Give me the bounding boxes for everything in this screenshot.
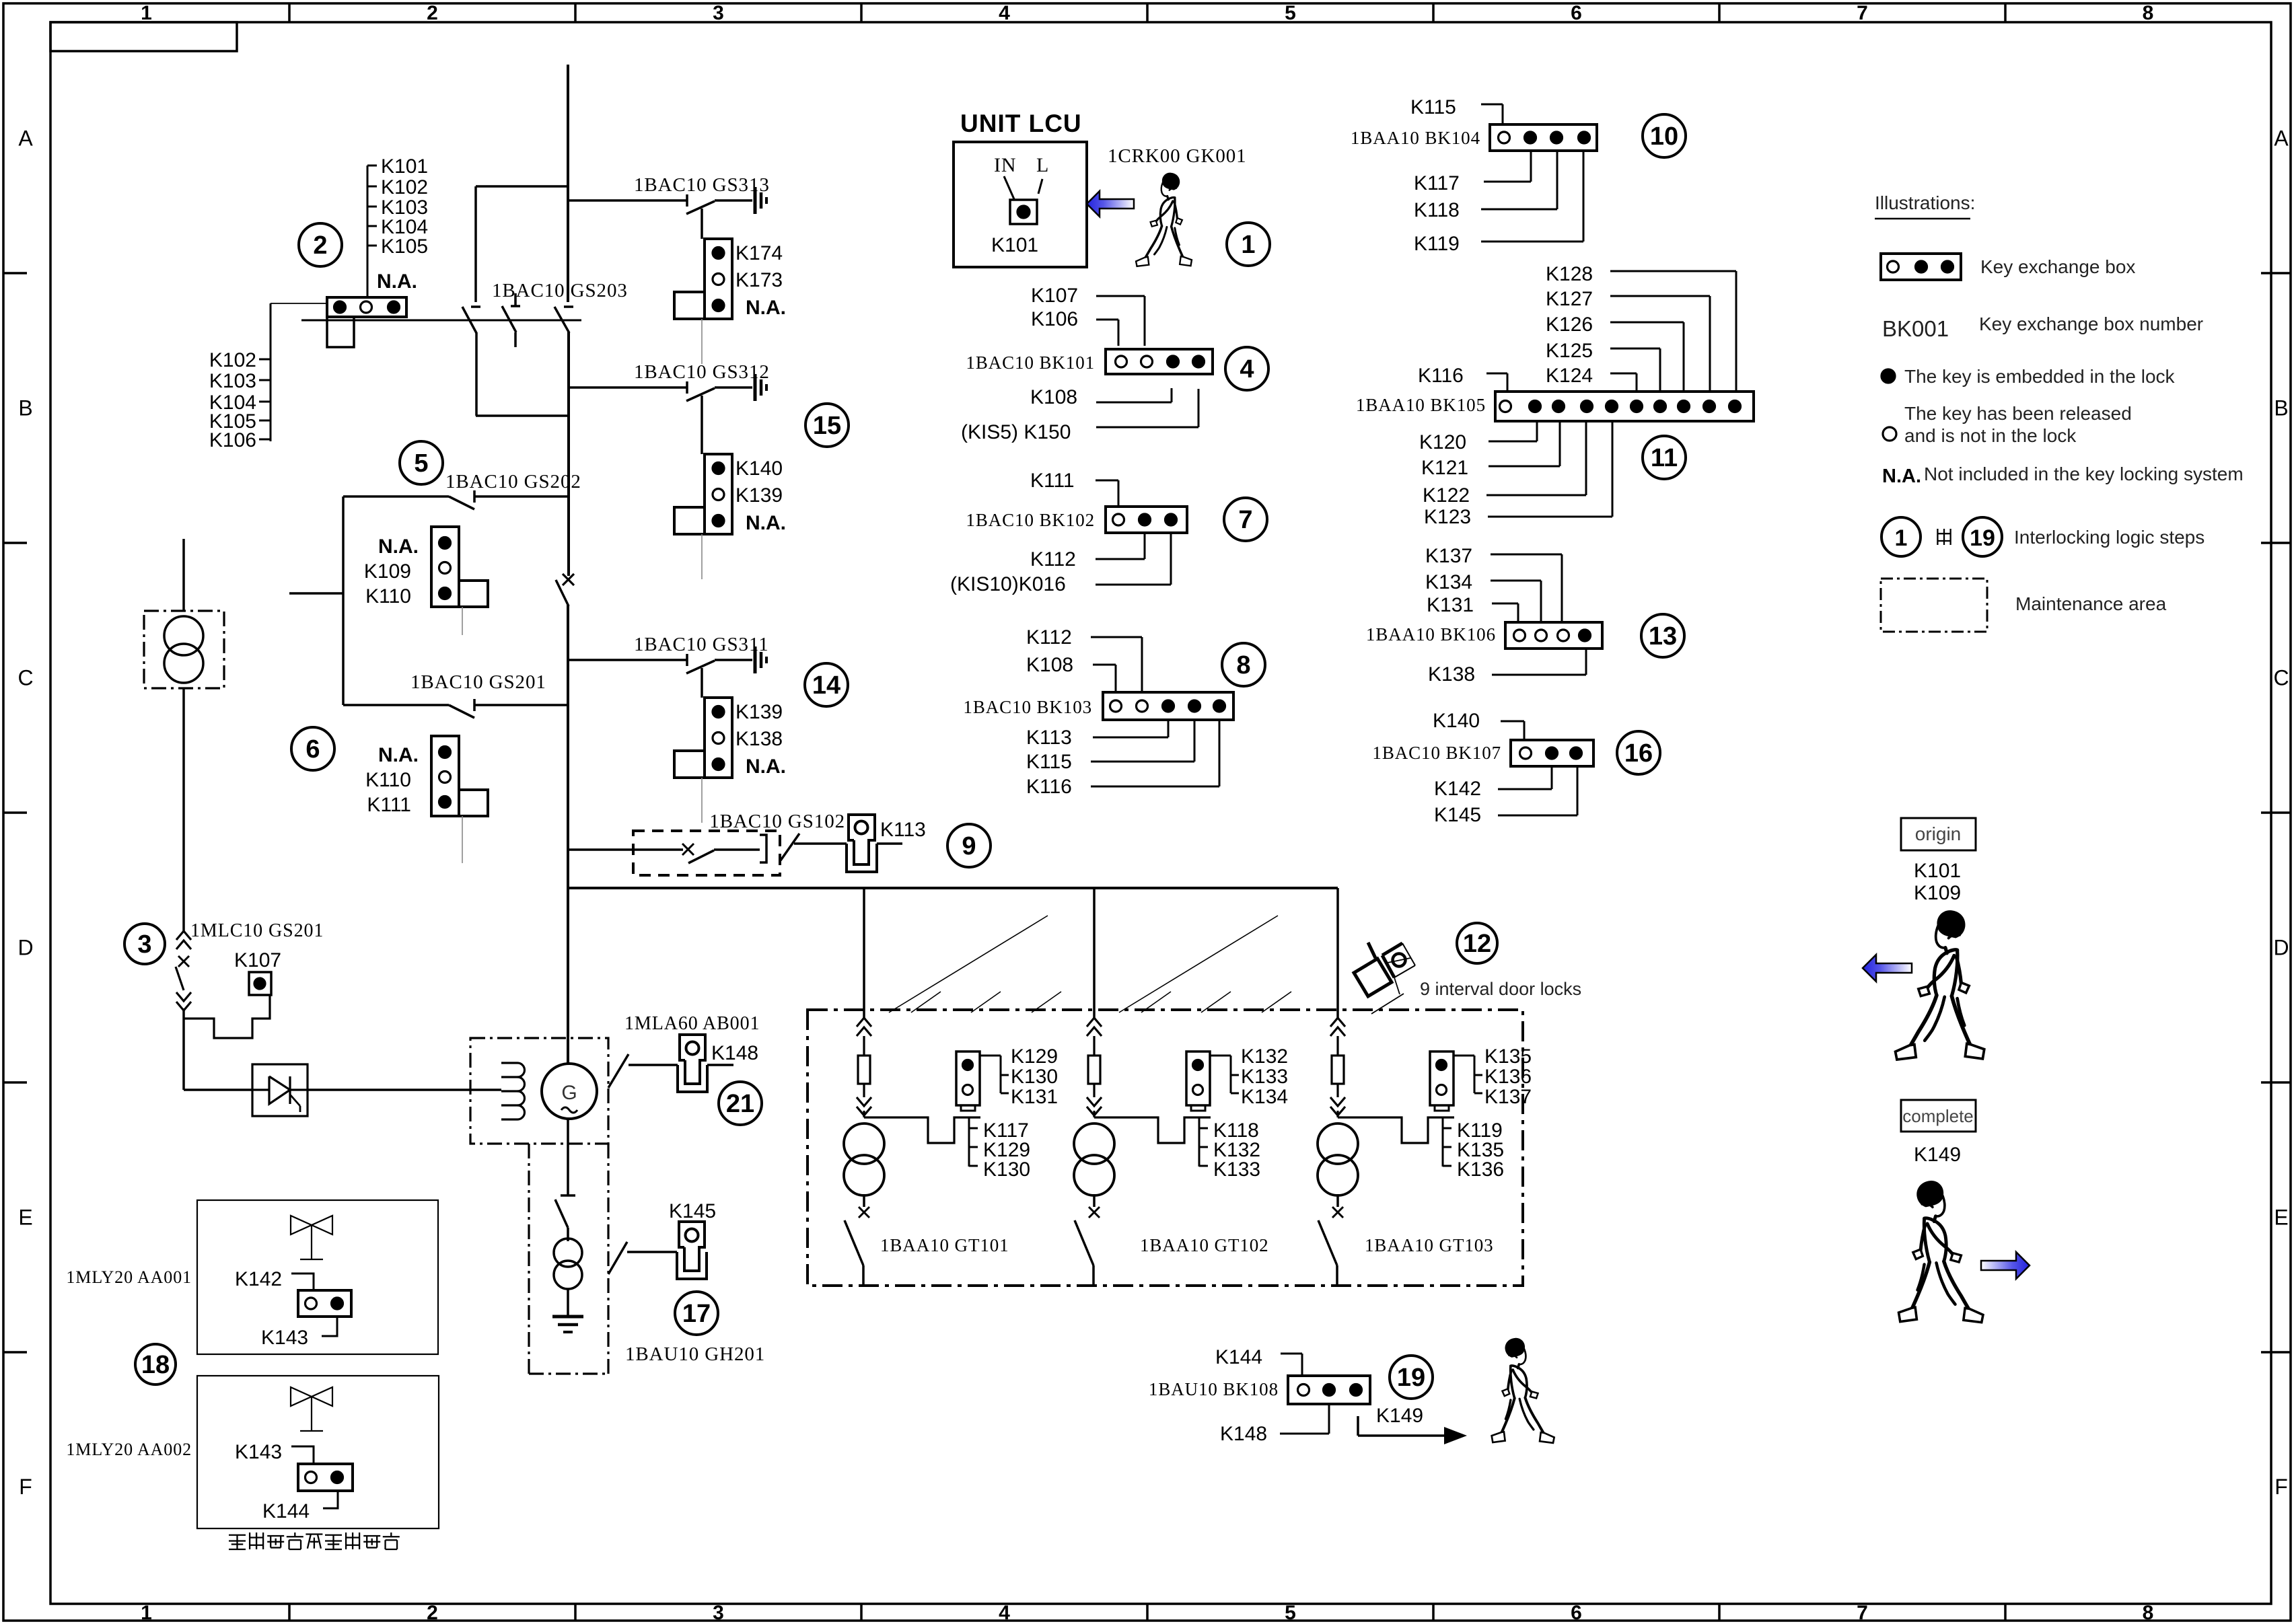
svg-text:K102: K102 xyxy=(209,349,256,371)
valve AA002 xyxy=(291,1387,332,1431)
svg-text:1BAC10 GS311: 1BAC10 GS311 xyxy=(634,634,769,655)
svg-text:K148: K148 xyxy=(1220,1423,1267,1445)
svg-text:2: 2 xyxy=(427,1602,438,1624)
caption CO2 fire isolation valves xyxy=(229,1533,400,1549)
svg-text:K120: K120 xyxy=(1419,431,1466,453)
key exchange box 1BAC10 BK102 xyxy=(1106,507,1187,533)
svg-text:IN: IN xyxy=(994,154,1016,176)
svg-text:13: 13 xyxy=(1649,622,1677,651)
svg-text:7: 7 xyxy=(1857,2,1868,24)
column ticks xyxy=(289,3,2005,1621)
svg-text:K130: K130 xyxy=(1011,1066,1058,1088)
wire branch 1BAC10 GS313 xyxy=(568,199,687,202)
cell left wire xyxy=(342,496,345,705)
svg-text:1BAC10 GS312: 1BAC10 GS312 xyxy=(634,361,770,383)
key label K115r fan xyxy=(1410,96,1503,124)
svg-text:1MLY20 AA002: 1MLY20 AA002 xyxy=(66,1440,192,1459)
legend open key text xyxy=(1904,403,2132,446)
disconnector 1BAC10 GS102 xyxy=(568,811,845,863)
svg-text:8: 8 xyxy=(2143,1602,2154,1624)
disconnector 1BAC10 GS311 xyxy=(634,634,769,673)
step 8 xyxy=(1222,643,1265,686)
key label K124 fan xyxy=(1546,365,1637,392)
bus wire upper xyxy=(567,65,569,302)
svg-text:B: B xyxy=(18,396,32,420)
tail wire 1BAC10 GS313 xyxy=(701,319,703,364)
field winding xyxy=(501,1063,525,1119)
pocket below box 2 xyxy=(327,317,354,347)
valve AA001 xyxy=(291,1216,332,1259)
interval door lock icon xyxy=(1354,943,1415,1014)
step 21 xyxy=(719,1082,762,1125)
svg-text:Key exchange box: Key exchange box xyxy=(1980,256,2135,277)
transformer 2-winding left xyxy=(164,616,203,683)
svg-text:N.A.: N.A. xyxy=(746,755,786,778)
svg-text:BK001: BK001 xyxy=(1882,316,1949,341)
svg-text:K140: K140 xyxy=(736,457,783,480)
svg-text:K139: K139 xyxy=(736,701,783,723)
svg-text:L: L xyxy=(1036,154,1049,176)
ground 1BAC10 GS312 xyxy=(755,374,766,401)
wire branch 1BAC10 GS312 xyxy=(568,386,687,389)
svg-text:A: A xyxy=(2274,126,2289,151)
svg-text:K113: K113 xyxy=(880,819,926,841)
svg-text:K136: K136 xyxy=(1484,1066,1532,1088)
step 13 xyxy=(1641,614,1684,657)
key label K143v xyxy=(261,1317,337,1349)
svg-text:9 interval door locks: 9 interval door locks xyxy=(1420,979,1581,999)
key label K112 fan xyxy=(1030,533,1145,570)
svg-text:19: 19 xyxy=(1397,1364,1425,1392)
withdrawable breaker 1MLC10 GS201 xyxy=(176,920,324,1010)
stub wire from left xyxy=(289,592,343,595)
svg-text:K142: K142 xyxy=(1434,778,1481,800)
svg-text:Interlocking logic steps: Interlocking logic steps xyxy=(2014,527,2205,548)
wire branch 1BAC10 GS311 xyxy=(568,659,687,661)
svg-text:1MLY20 AA001: 1MLY20 AA001 xyxy=(66,1267,192,1287)
key label K115 fan xyxy=(1026,720,1194,773)
svg-text:K133: K133 xyxy=(1213,1158,1260,1181)
key label K128 fan xyxy=(1546,263,1736,392)
wire GS102 to K113 xyxy=(794,842,847,845)
svg-text:8: 8 xyxy=(1236,651,1250,679)
svg-text:1BAC10 GS102: 1BAC10 GS102 xyxy=(709,811,845,832)
svg-text:8: 8 xyxy=(2143,2,2154,24)
tail wire 1BAC10 GS312 xyxy=(701,534,703,579)
svg-text:3: 3 xyxy=(713,2,724,24)
svg-text:K131: K131 xyxy=(1427,594,1474,616)
key label K113 fan xyxy=(1026,720,1168,749)
svg-text:K111: K111 xyxy=(1030,470,1075,492)
breaker below generator xyxy=(555,1195,575,1228)
key label K144 fan xyxy=(1215,1346,1302,1376)
arrow to UNIT LCU xyxy=(1087,191,1134,217)
svg-text:1: 1 xyxy=(141,2,152,24)
step 3 xyxy=(124,924,165,964)
bus wire middle xyxy=(567,332,570,576)
svg-text:K138: K138 xyxy=(1428,663,1475,686)
svg-text:18: 18 xyxy=(141,1351,170,1379)
key labels bottom GT103 xyxy=(1443,1117,1504,1181)
svg-text:K138: K138 xyxy=(736,728,783,750)
svg-text:K132: K132 xyxy=(1241,1045,1288,1068)
transformer box left xyxy=(144,611,224,688)
jog wire GT102 xyxy=(1094,1117,1211,1143)
svg-text:K145: K145 xyxy=(1434,804,1481,826)
key label K108 fan xyxy=(1030,386,1172,408)
svg-text:K122: K122 xyxy=(1423,484,1470,507)
wire to PT xyxy=(567,1228,569,1241)
svg-text:A: A xyxy=(18,126,33,151)
key block step 6 xyxy=(365,736,488,816)
svg-text:B: B xyxy=(2274,396,2288,420)
svg-text:K127: K127 xyxy=(1546,288,1593,310)
wire exciter to coil xyxy=(308,1088,501,1091)
svg-text:origin: origin xyxy=(1915,823,1961,844)
GH201 box xyxy=(529,1144,608,1374)
loop top wire GS203 xyxy=(476,185,568,188)
svg-text:complete: complete xyxy=(1902,1106,1974,1126)
svg-text:5: 5 xyxy=(1285,1602,1296,1624)
key label K122 fan xyxy=(1423,421,1586,507)
key block 1BAC10 GS311 xyxy=(674,698,786,778)
svg-text:K112: K112 xyxy=(1030,548,1076,570)
svg-text:9: 9 xyxy=(962,832,976,860)
lock pair GT102 xyxy=(1186,1051,1210,1111)
key label K144v xyxy=(262,1491,338,1522)
wire box2 to bracket xyxy=(271,303,327,304)
svg-text:K105: K105 xyxy=(381,235,428,258)
key label K116 fan xyxy=(1026,720,1219,798)
svg-text:N.A.: N.A. xyxy=(746,512,786,534)
legend maintenance box xyxy=(1881,579,1987,632)
svg-text:Key exchange box number: Key exchange box number xyxy=(1979,313,2203,334)
svg-text:E: E xyxy=(18,1206,32,1230)
jog wire GT101 xyxy=(864,1117,980,1143)
key label K134 fan xyxy=(1425,571,1541,622)
svg-text:K116: K116 xyxy=(1026,776,1072,798)
person GK001 xyxy=(1136,173,1192,266)
svg-text:K130: K130 xyxy=(983,1158,1030,1181)
svg-text:K101: K101 xyxy=(1914,860,1961,882)
svg-text:19: 19 xyxy=(1970,525,1995,551)
feeder wire GT103 xyxy=(1336,888,1339,1019)
disconnector below GT102 xyxy=(1075,1194,1100,1286)
transformer GT103 xyxy=(1318,1123,1358,1195)
key label K125 fan xyxy=(1546,340,1660,392)
svg-text:K136: K136 xyxy=(1457,1158,1504,1181)
svg-text:K113: K113 xyxy=(1026,727,1072,749)
svg-text:1BAC10 BK103: 1BAC10 BK103 xyxy=(963,697,1092,717)
step 12 xyxy=(1457,923,1497,963)
svg-text:1BAA10 BK106: 1BAA10 BK106 xyxy=(1366,624,1496,644)
step 5 xyxy=(400,441,443,484)
svg-text:1: 1 xyxy=(1895,525,1908,551)
wire PT to ground xyxy=(567,1289,569,1316)
disconnector 1BAC10 GS201 xyxy=(343,671,568,718)
feeder wire GT102 xyxy=(1093,888,1096,1019)
step 10 xyxy=(1643,114,1686,157)
disconnector 1BAC10 GS203 xyxy=(462,280,628,347)
wire to key block 1BAC10 GS311 xyxy=(701,668,703,698)
svg-text:K106: K106 xyxy=(209,429,256,451)
transformer GT101 xyxy=(844,1123,884,1195)
key labels bottom GT101 xyxy=(969,1117,1030,1181)
key label K131 fan xyxy=(1427,594,1518,622)
step 2 xyxy=(299,223,342,266)
step 18 xyxy=(135,1344,176,1385)
svg-text:D: D xyxy=(17,936,33,960)
key label K117r fan xyxy=(1414,151,1531,194)
legend key exchange box sample xyxy=(1881,254,1961,280)
svg-text:(KIS10)K016: (KIS10)K016 xyxy=(950,573,1066,595)
key label K150 fan xyxy=(961,389,1198,443)
key label K016 fan xyxy=(950,533,1171,595)
step 9 xyxy=(947,824,991,867)
key label K140 fan xyxy=(1433,710,1524,740)
key label K107 fan xyxy=(1031,285,1145,346)
key label K119r fan xyxy=(1414,151,1583,255)
lock K145 xyxy=(669,1200,716,1279)
origin keys xyxy=(1914,860,1961,904)
svg-text:K133: K133 xyxy=(1241,1066,1288,1088)
wire through GS203 xyxy=(301,320,581,322)
pole 1 wire GS203 xyxy=(474,186,477,302)
svg-text:1BAC10 GS201: 1BAC10 GS201 xyxy=(410,671,546,693)
voltage transformer GH201 xyxy=(554,1239,582,1289)
svg-text:K126: K126 xyxy=(1546,313,1593,336)
breaker 1MLA60 AB001 xyxy=(608,1013,760,1088)
jog wire GT103 xyxy=(1338,1117,1454,1143)
svg-text:K174: K174 xyxy=(736,242,783,264)
svg-text:F: F xyxy=(19,1475,32,1499)
key label K142 fan xyxy=(1434,766,1552,800)
maintenance box GS102 xyxy=(633,831,780,875)
svg-text:E: E xyxy=(2274,1206,2288,1230)
key exchange box 1BAA10 BK104 xyxy=(1490,124,1597,151)
svg-text:K116: K116 xyxy=(1418,365,1464,387)
ground GH201 xyxy=(552,1317,583,1332)
svg-text:1BAC10 GS202: 1BAC10 GS202 xyxy=(445,471,581,492)
svg-text:K131: K131 xyxy=(1011,1086,1058,1108)
key label K112b fan xyxy=(1026,626,1142,692)
svg-text:6: 6 xyxy=(1571,2,1582,24)
svg-text:UNIT LCU: UNIT LCU xyxy=(960,110,1082,137)
svg-text:1BAA10 GT102: 1BAA10 GT102 xyxy=(1140,1235,1269,1255)
svg-text:K140: K140 xyxy=(1433,710,1480,732)
step 4 xyxy=(1225,347,1268,390)
svg-text:K118: K118 xyxy=(1414,199,1460,221)
svg-text:N.A.: N.A. xyxy=(746,297,786,319)
svg-text:1: 1 xyxy=(141,1602,152,1624)
svg-text:1BAC10 BK102: 1BAC10 BK102 xyxy=(966,510,1095,530)
svg-text:7: 7 xyxy=(1857,1602,1868,1624)
svg-text:K115: K115 xyxy=(1410,96,1456,118)
svg-text:2: 2 xyxy=(313,231,327,260)
svg-text:Illustrations:: Illustrations: xyxy=(1875,192,1975,213)
svg-text:K110: K110 xyxy=(365,585,411,607)
svg-text:K148: K148 xyxy=(711,1042,758,1064)
withdrawable fuse GT103 xyxy=(1330,1018,1345,1117)
svg-text:K109: K109 xyxy=(1914,882,1961,904)
svg-text:21: 21 xyxy=(726,1090,754,1118)
disconnector 1BAC10 GS202 xyxy=(343,471,581,509)
key label K120 fan xyxy=(1419,421,1537,453)
disconnector 1BAC10 GS313 xyxy=(634,174,770,214)
key labels bottom GT102 xyxy=(1199,1117,1260,1181)
title strip box top-left xyxy=(50,22,237,51)
svg-text:K102: K102 xyxy=(381,176,428,198)
svg-text:4: 4 xyxy=(1240,355,1254,383)
withdrawable fuse GT101 xyxy=(857,1018,871,1117)
svg-text:1BAU10 GH201: 1BAU10 GH201 xyxy=(625,1343,765,1365)
svg-text:10: 10 xyxy=(1650,122,1678,151)
breaker X on bus xyxy=(556,574,574,606)
svg-text:K125: K125 xyxy=(1546,340,1593,362)
key labels top GT101 xyxy=(980,1045,1058,1108)
key label K123 fan xyxy=(1424,421,1612,528)
svg-text:2: 2 xyxy=(427,2,438,24)
key exchange box 1BAA10 BK105 xyxy=(1495,392,1754,421)
step 15 xyxy=(805,404,849,447)
transformer GT102 xyxy=(1074,1123,1114,1195)
svg-text:1BAA10 GT103: 1BAA10 GT103 xyxy=(1365,1235,1494,1255)
key exchange box 1BAC10 BK107 xyxy=(1511,740,1593,766)
svg-text:1BAC10 BK101: 1BAC10 BK101 xyxy=(966,353,1095,373)
svg-text:(KIS5) K150: (KIS5) K150 xyxy=(961,421,1071,443)
svg-text:17: 17 xyxy=(682,1300,711,1328)
svg-text:K119: K119 xyxy=(1414,233,1460,255)
svg-text:N.A.: N.A. xyxy=(378,536,419,558)
key exchange box 1BAC10 BK101 xyxy=(1106,349,1213,374)
svg-text:G: G xyxy=(561,1082,577,1104)
svg-text:N.A.: N.A. xyxy=(377,270,417,293)
svg-text:K106: K106 xyxy=(1031,308,1078,330)
wire below transformer xyxy=(182,688,185,932)
key exchange box AA001 xyxy=(298,1290,351,1317)
feeder wire GT101 xyxy=(863,888,865,1019)
svg-text:5: 5 xyxy=(414,449,428,478)
origin arrow xyxy=(1863,955,1912,982)
wire below breaker xyxy=(182,1008,185,1090)
wire to excitation xyxy=(184,1088,252,1091)
step 19 xyxy=(1390,1356,1433,1399)
svg-text:6: 6 xyxy=(306,735,320,764)
svg-text:K112: K112 xyxy=(1026,626,1072,649)
bus wire lower xyxy=(567,605,569,1064)
svg-text:1BAA10 GT101: 1BAA10 GT101 xyxy=(880,1235,1009,1255)
wire after K148 xyxy=(707,1064,733,1066)
key bracket K101-K105 xyxy=(367,155,428,297)
svg-text:K111: K111 xyxy=(367,794,411,816)
svg-text:K137: K137 xyxy=(1484,1086,1532,1108)
key label K138 fan xyxy=(1428,649,1586,686)
disconnector 1BAC10 GS312 xyxy=(634,361,770,401)
step 6 xyxy=(291,727,334,770)
key label K127 fan xyxy=(1546,288,1710,392)
svg-text:6: 6 xyxy=(1571,1602,1582,1624)
thyristor exciter xyxy=(252,1064,308,1116)
svg-text:K143: K143 xyxy=(261,1327,308,1349)
loop bottom wire GS203 xyxy=(476,414,569,417)
distribution wire xyxy=(568,887,1338,889)
svg-text:1BAC10 GS203: 1BAC10 GS203 xyxy=(492,280,628,301)
key label K116r fan xyxy=(1418,365,1507,392)
wire to key block 1BAC10 GS313 xyxy=(701,209,703,239)
generator box xyxy=(470,1038,608,1144)
generator G xyxy=(542,1064,597,1119)
key label K106 fan xyxy=(1031,308,1118,346)
key K149 out arrow xyxy=(1358,1405,1467,1444)
svg-text:K101: K101 xyxy=(381,155,428,178)
legend dao glyph xyxy=(1937,529,1950,545)
blade outside GS102 xyxy=(781,834,799,860)
key exchange box 1BAA10 BK106 xyxy=(1505,622,1602,649)
svg-text:1BAU10 BK108: 1BAU10 BK108 xyxy=(1149,1379,1279,1399)
svg-text:4: 4 xyxy=(999,2,1010,24)
tail wire block 6 xyxy=(462,816,463,863)
complete arrow xyxy=(1981,1252,2030,1279)
key label K121 fan xyxy=(1421,421,1560,479)
svg-text:1BAC10 BK107: 1BAC10 BK107 xyxy=(1372,743,1501,763)
lock K148 xyxy=(678,1035,758,1092)
svg-text:K128: K128 xyxy=(1546,263,1593,285)
valve box 1MLY20 AA001 xyxy=(197,1200,438,1354)
glass hatch bay 2 xyxy=(1119,916,1291,1012)
step 1 xyxy=(1227,223,1270,266)
origin box xyxy=(1901,818,1976,850)
svg-text:K145: K145 xyxy=(669,1200,716,1222)
legend step circle 1 xyxy=(1881,517,1921,556)
key label K126 fan xyxy=(1546,313,1684,392)
legend title xyxy=(1875,192,1975,219)
svg-text:3: 3 xyxy=(713,1602,724,1624)
ground 1BAC10 GS311 xyxy=(755,647,766,673)
svg-text:Not included in the key lockin: Not included in the key locking system xyxy=(1924,464,2244,484)
svg-text:K124: K124 xyxy=(1546,365,1593,387)
glass hatch bay 1 xyxy=(889,916,1061,1012)
key exchange box 1BAU10 BK108 xyxy=(1288,1376,1370,1404)
UNIT LCU box xyxy=(954,142,1087,267)
svg-text:K107: K107 xyxy=(234,949,281,971)
legend open key dot xyxy=(1883,427,1896,441)
svg-text:1CRK00 GK001: 1CRK00 GK001 xyxy=(1108,145,1247,167)
svg-text:K108: K108 xyxy=(1026,654,1073,676)
key label K108b fan xyxy=(1026,654,1116,692)
person step 19 xyxy=(1492,1338,1554,1443)
svg-text:K149: K149 xyxy=(1914,1144,1961,1166)
key label K148b fan xyxy=(1220,1404,1329,1445)
svg-text:3: 3 xyxy=(137,930,151,959)
svg-text:K144: K144 xyxy=(262,1500,310,1522)
svg-text:1BAA10 BK105: 1BAA10 BK105 xyxy=(1356,395,1486,415)
ground 1BAC10 GS313 xyxy=(755,187,766,214)
svg-text:5: 5 xyxy=(1285,2,1296,24)
svg-text:C: C xyxy=(2273,666,2289,690)
key label K143v2 xyxy=(235,1441,314,1464)
svg-text:K107: K107 xyxy=(1031,285,1078,307)
svg-text:K129: K129 xyxy=(1011,1045,1058,1068)
legend filled key dot xyxy=(1881,369,1895,383)
tail wire 1BAC10 GS311 xyxy=(701,778,703,823)
svg-text:F: F xyxy=(2274,1475,2288,1499)
svg-text:The key is embedded in the loc: The key is embedded in the lock xyxy=(1904,366,2176,387)
wire AB001 to K148 xyxy=(629,1064,678,1066)
disconnector below GT101 xyxy=(845,1194,869,1286)
svg-text:D: D xyxy=(2273,936,2289,960)
svg-text:1MLA60 AB001: 1MLA60 AB001 xyxy=(624,1013,760,1034)
svg-text:K121: K121 xyxy=(1421,457,1468,479)
